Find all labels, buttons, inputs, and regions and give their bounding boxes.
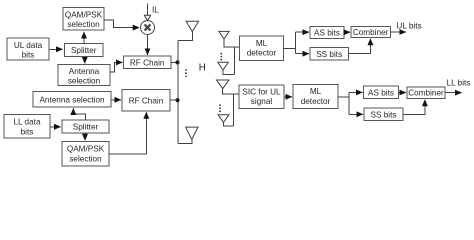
wire LL data bits to Splitter2 (50, 126, 61, 128)
svg-text:selection: selection (67, 20, 100, 29)
svg-text:AS bits: AS bits (368, 88, 394, 97)
wire Combiner1 to UL bits (390, 31, 406, 33)
box RF Chain1 (124, 56, 172, 69)
svg-text:selection: selection (69, 154, 102, 163)
wire SS bits 1 to Combiner1 bottom (349, 39, 371, 54)
svg-text:UL data: UL data (14, 41, 43, 50)
box AS bits 2 (364, 86, 399, 99)
svg-text:detector: detector (247, 49, 277, 58)
wire RF Chain2 to antenna bus (170, 99, 178, 101)
RX ellipsis bottom (219, 104, 221, 112)
svg-text:LL data: LL data (13, 118, 40, 127)
svg-text:RF Chain: RF Chain (130, 58, 165, 67)
TX antenna bus (177, 40, 179, 143)
box AS bits 1 (310, 27, 344, 39)
IL input with hollow arrowhead (144, 4, 159, 21)
mixer X1 (141, 21, 155, 35)
svg-text:ML: ML (256, 39, 268, 48)
svg-text:signal: signal (251, 97, 273, 106)
svg-text:UL bits: UL bits (396, 21, 421, 30)
box SS bits 2 (364, 108, 403, 121)
box ML detector 2 (293, 85, 338, 109)
svg-text:SIC for UL: SIC for UL (242, 87, 281, 96)
svg-text:detector: detector (301, 97, 331, 106)
box QAM/PSK selection1 (63, 8, 104, 31)
box Combiner1 (351, 27, 390, 38)
TX antenna 2 (178, 127, 198, 143)
wire ML detector 1 output split (284, 32, 309, 54)
wire AS bits 2 to Combiner2 (399, 92, 406, 94)
svg-text:AS bits: AS bits (314, 29, 340, 38)
svg-text:H: H (199, 63, 206, 74)
junction dot RF Chain2 (175, 98, 179, 102)
svg-text:Antenna selection: Antenna selection (39, 96, 105, 105)
svg-text:Combiner: Combiner (408, 89, 444, 98)
RX antenna D (218, 115, 234, 126)
wire Splitter2 down to QAM/PSK selection2 (84, 133, 86, 140)
wire Antenna selection LL to RF Chain2 (111, 99, 121, 101)
wire mixer to RF Chain1 (147, 34, 149, 55)
box Antenna selection UL (two-line) (58, 65, 110, 86)
svg-text:bits: bits (22, 50, 35, 59)
RX antenna C (217, 80, 239, 94)
box RF Chain2 (122, 90, 170, 112)
RX ellipsis top (220, 53, 222, 61)
box Antenna selection LL (one-line) (33, 92, 111, 108)
svg-text:RF Chain: RF Chain (129, 96, 164, 105)
svg-text:Splitter: Splitter (73, 123, 99, 132)
wire AS bits 1 to Combiner1 (344, 31, 350, 33)
svg-text:Antenna: Antenna (69, 67, 100, 76)
svg-text:ML: ML (310, 87, 322, 96)
box Splitter1 (65, 44, 104, 57)
wire SS bits 2 to Combiner2 bottom (403, 100, 425, 115)
RX antenna A (219, 31, 239, 47)
box Combiner2 (407, 87, 445, 99)
wire Combiner2 to LL bits (445, 92, 461, 94)
RX bus top (233, 47, 235, 74)
wire Splitter1 down to Antenna selection UL (84, 57, 86, 64)
wire SIC to ML detector 2 (284, 96, 292, 98)
junction dot RF Chain1 (175, 60, 179, 64)
wire QAM/PSK selection1 to mixer (104, 20, 139, 28)
wire UL data bits to Splitter1 (49, 48, 63, 50)
wire RF Chain1 to antenna bus (171, 61, 178, 63)
box Splitter2 (62, 120, 109, 133)
wire QAM/PSK selection2 to RF Chain2 bottom (109, 112, 146, 154)
RX bus bottom (233, 94, 235, 126)
TX ellipsis (185, 69, 187, 77)
svg-text:Combiner: Combiner (353, 28, 389, 37)
box SS bits 1 (310, 48, 349, 61)
RX antenna B (218, 62, 235, 74)
wire Antenna selection UL to RF Chain1 (110, 62, 122, 72)
svg-text:bits: bits (21, 127, 34, 136)
svg-text:QAM/PSK: QAM/PSK (67, 145, 105, 154)
wire ML detector 2 output split (338, 92, 363, 114)
svg-text:IL: IL (152, 6, 159, 15)
box UL data bits (7, 38, 49, 60)
wire Splitter2 up to Antenna selection LL (73, 109, 85, 121)
box SIC for UL signal (239, 85, 284, 109)
TX antenna 1 (178, 21, 199, 40)
box LL data bits (4, 115, 50, 139)
svg-text:LL bits: LL bits (447, 79, 471, 88)
box ML detector 1 (240, 36, 284, 61)
wire Splitter1 up to QAM/PSK selection1 (83, 32, 85, 44)
svg-text:SS bits: SS bits (316, 50, 342, 59)
svg-text:selection: selection (68, 76, 101, 85)
svg-text:QAM/PSK: QAM/PSK (65, 10, 103, 19)
svg-text:Splitter: Splitter (71, 46, 97, 55)
box QAM/PSK selection2 (62, 142, 109, 167)
svg-text:SS bits: SS bits (371, 110, 397, 119)
